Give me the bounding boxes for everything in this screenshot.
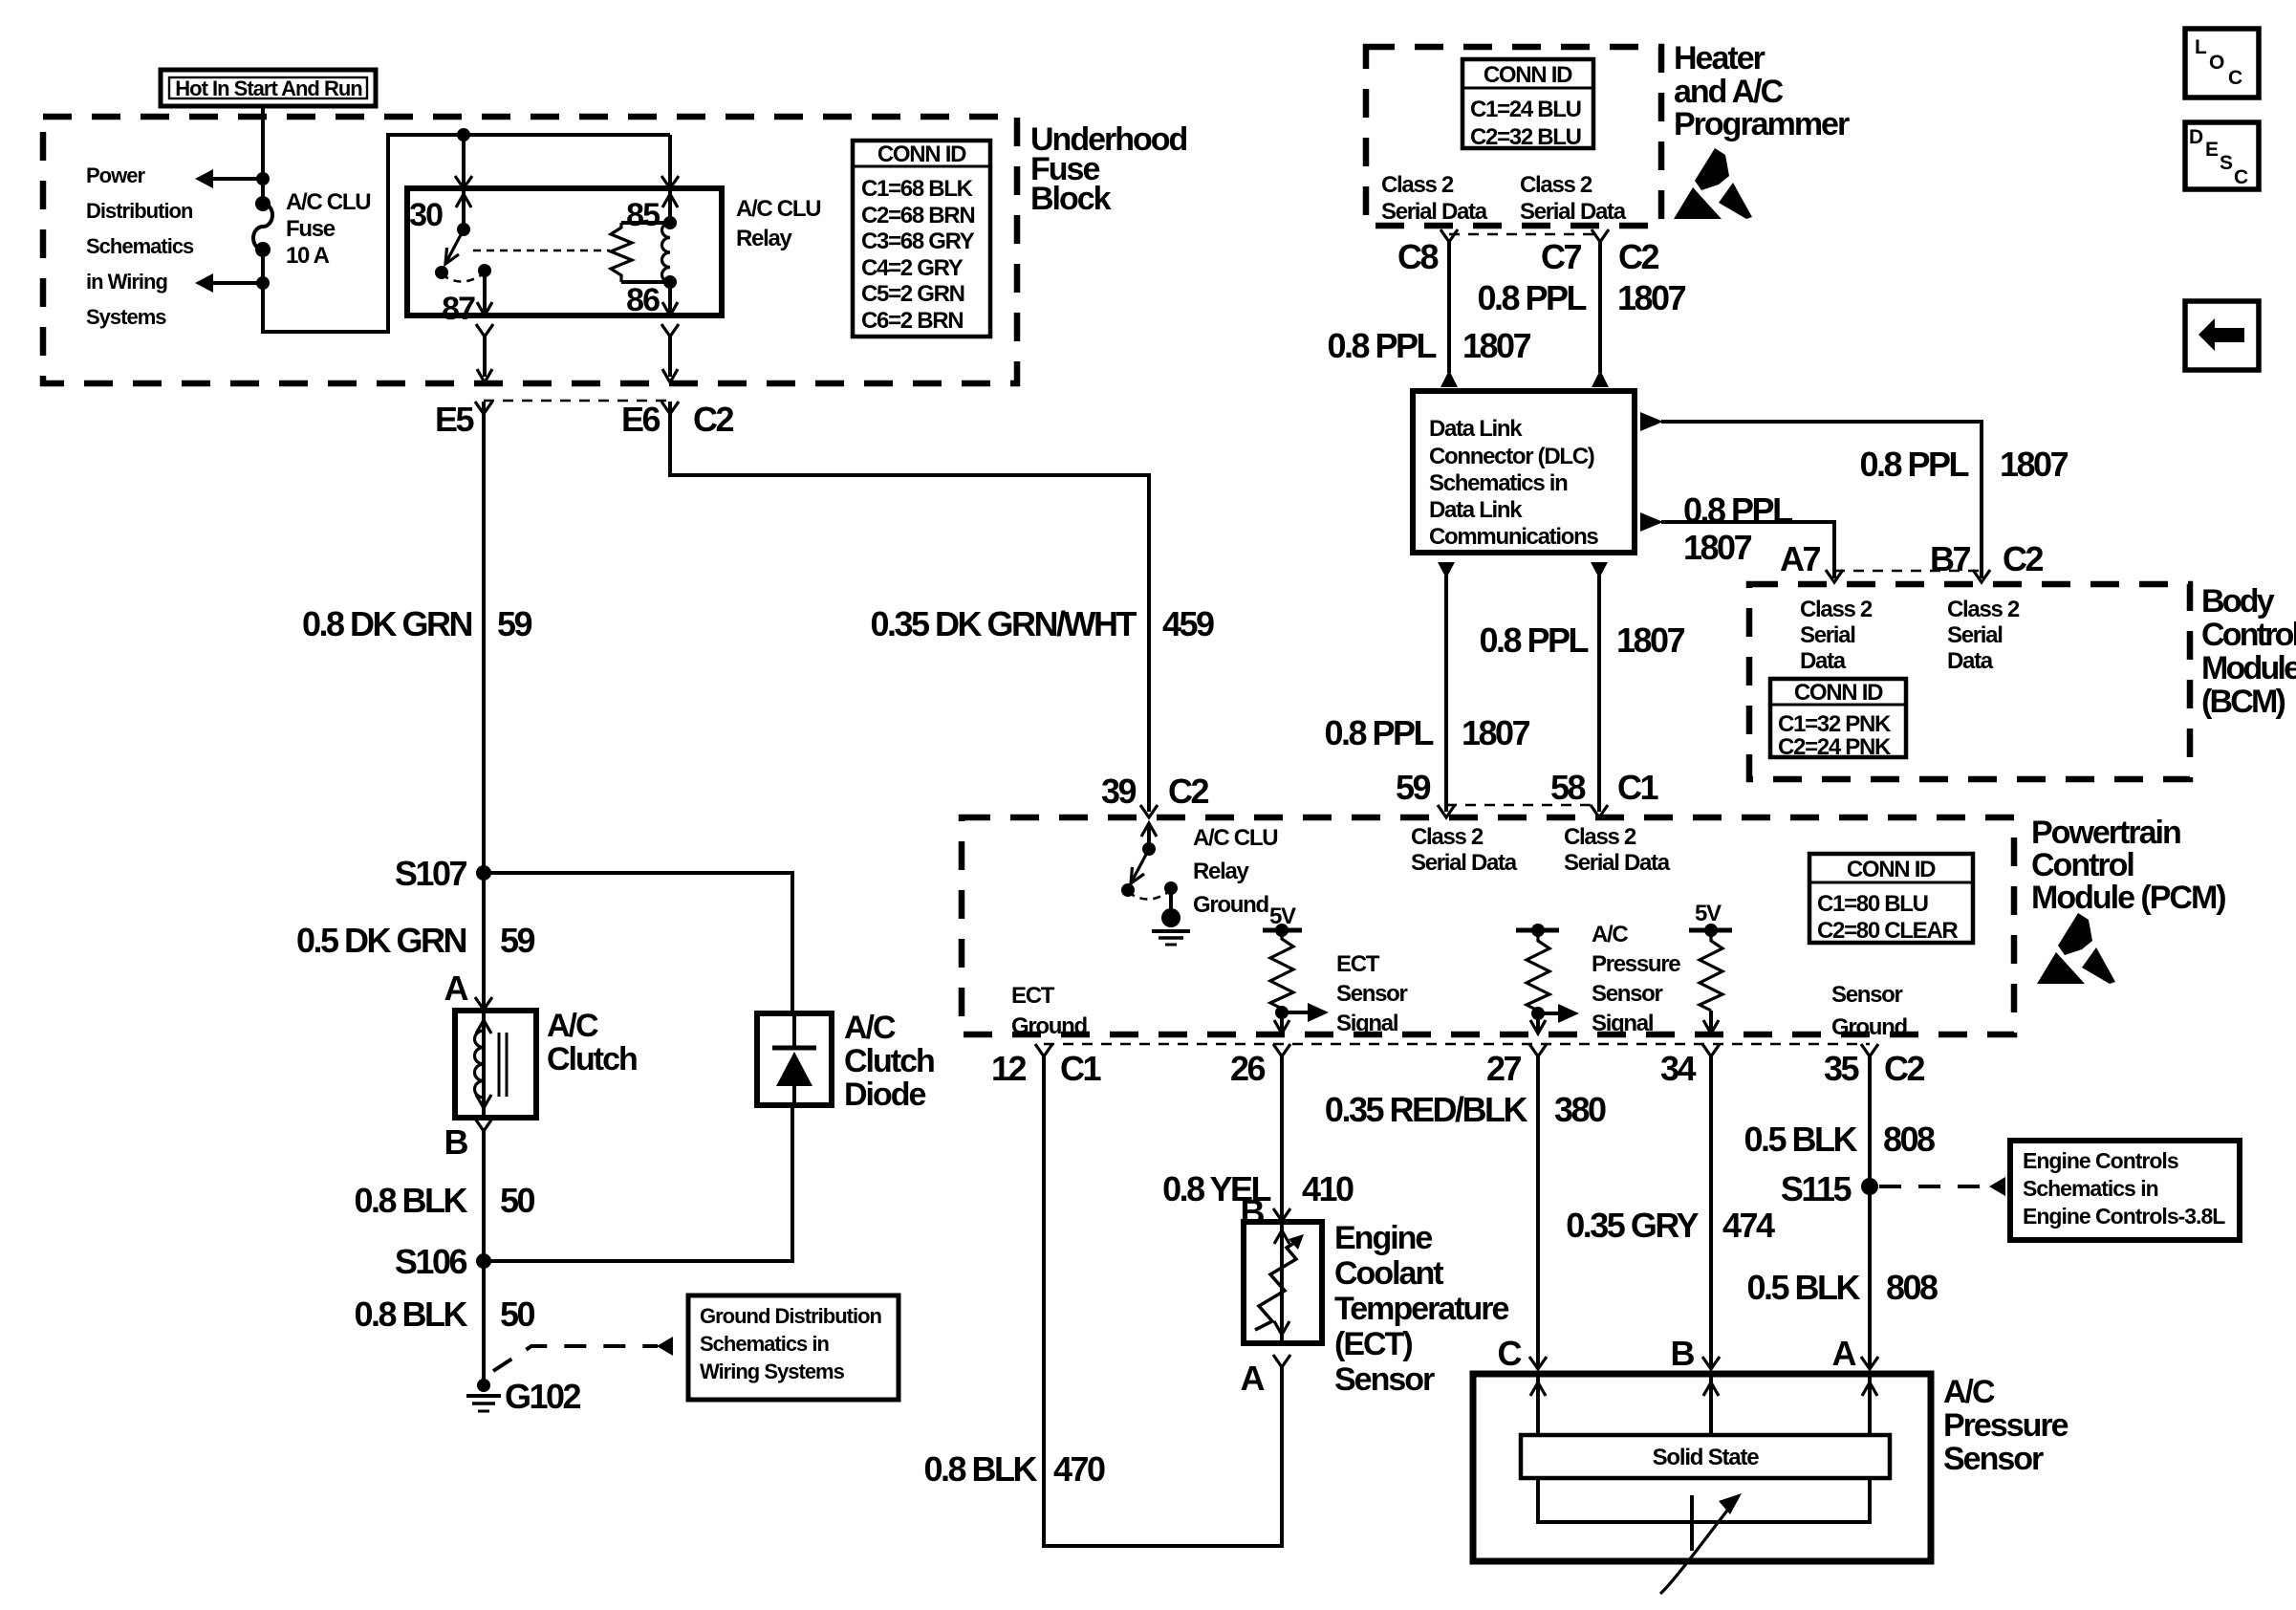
connector pin 26 chevron <box>1273 1044 1290 1056</box>
svg-text:Programmer: Programmer <box>1674 106 1850 142</box>
svg-text:C1=24 BLU: C1=24 BLU <box>1470 97 1581 122</box>
svg-text:ECT: ECT <box>1011 983 1055 1009</box>
svg-text:459: 459 <box>1162 604 1214 643</box>
svg-text:34: 34 <box>1660 1049 1697 1088</box>
svg-text:1807: 1807 <box>2000 445 2069 484</box>
connector bracket 59-58 (thin dashed) <box>1446 804 1599 807</box>
node: A/C pressure signal junction <box>1531 1007 1545 1020</box>
CONN ID table (Heater and A/C Programmer) <box>1462 59 1593 150</box>
Data Link Connector (DLC) reference box <box>1413 391 1635 553</box>
svg-text:C2=24 PNK: C2=24 PNK <box>1778 734 1892 760</box>
svg-text:E: E <box>2205 139 2219 161</box>
ground (A/C CLU relay ground) <box>1152 908 1190 945</box>
svg-text:1807: 1807 <box>1462 713 1530 752</box>
svg-text:Schematics in: Schematics in <box>1429 470 1568 496</box>
svg-text:Data Link: Data Link <box>1429 497 1523 523</box>
wire: pin 87 to E5 through fuse block boundary <box>476 324 493 382</box>
svg-text:Data Link: Data Link <box>1429 416 1523 442</box>
Body Control Module dashed outline <box>1749 584 2190 779</box>
svg-text:Signal: Signal <box>1592 1011 1653 1036</box>
variable capacitance symbol <box>1660 1493 1742 1594</box>
label: ECT Sensor Signal <box>1336 951 1408 1036</box>
wire: battery feed from Hot box to fuse <box>261 106 265 204</box>
svg-text:Module: Module <box>2201 650 2296 686</box>
label: Class 2 Serial Data (programmer left) <box>1381 172 1488 225</box>
svg-text:Ground Distribution: Ground Distribution <box>700 1304 882 1328</box>
CONN ID table (PCM) <box>1809 854 1973 944</box>
svg-text:C2: C2 <box>1884 1049 1924 1088</box>
label: Class 2 Serial Data (BCM left) <box>1800 597 1873 674</box>
svg-text:C2=80 CLEAR: C2=80 CLEAR <box>1817 918 1958 944</box>
svg-text:0.8 PPL: 0.8 PPL <box>1324 713 1433 752</box>
svg-text:A7: A7 <box>1780 539 1820 578</box>
svg-text:(BCM): (BCM) <box>2201 684 2285 720</box>
pin 85 entry: wire, chevron, arrow <box>661 135 679 223</box>
svg-text:58: 58 <box>1550 768 1586 807</box>
wire: S106 to G102 (0.8 BLK 50) <box>482 1261 486 1384</box>
switch arm (PCM driver) <box>1121 849 1171 900</box>
svg-text:C: C <box>2234 166 2248 188</box>
svg-text:Ground: Ground <box>1831 1014 1907 1040</box>
pin 86 exit wire and arrow <box>662 282 678 315</box>
svg-text:Wiring Systems: Wiring Systems <box>700 1360 845 1383</box>
svg-text:L: L <box>2195 36 2207 58</box>
svg-text:C1=68 BLK: C1=68 BLK <box>861 176 974 202</box>
svg-text:86: 86 <box>626 282 660 318</box>
arrow: ground reference (filled left arrow) <box>657 1337 673 1356</box>
Solid State box <box>1521 1435 1890 1478</box>
pressure sensor internal wire B with arrow <box>1703 1377 1719 1435</box>
module name: Engine Coolant Temperature (ECT) Sensor <box>1334 1220 1509 1398</box>
arrow into DLC (right) <box>1592 370 1609 387</box>
LOC navigation box <box>2185 29 2259 98</box>
A/C CLU relay ground switch inside PCM: entry arrow <box>1141 823 1157 856</box>
svg-text:D: D <box>2189 126 2203 148</box>
svg-text:(ECT): (ECT) <box>1334 1326 1412 1362</box>
wire: clutch B to S106 (0.8 BLK 50) <box>482 1131 486 1261</box>
svg-text:Serial Data: Serial Data <box>1381 199 1488 225</box>
svg-text:808: 808 <box>1886 1268 1938 1307</box>
svg-text:Serial Data: Serial Data <box>1564 850 1671 876</box>
svg-text:A/C: A/C <box>547 1008 598 1044</box>
connector bracket C1/C2 pins (thin dashed) <box>1044 1043 1870 1046</box>
connector pin 35 chevron <box>1861 1044 1878 1056</box>
dashed reference to Ground Distribution <box>493 1346 658 1371</box>
svg-text:A/C CLU: A/C CLU <box>736 196 820 222</box>
wire: E6 to PCM pin 39 (0.35 DK GRN/WHT 459) <box>670 402 1149 812</box>
svg-text:Distribution: Distribution <box>86 199 193 223</box>
connector chevron pressure sensor pin C <box>1529 1357 1547 1369</box>
connector pin 34 chevron <box>1702 1044 1720 1056</box>
Heater and A/C Programmer dashed outline <box>1366 47 1661 226</box>
pressure sensing element loop <box>1538 1478 1870 1522</box>
5V supply bar (ECT) <box>1263 903 1302 937</box>
label: Sensor Ground <box>1831 982 1907 1040</box>
svg-text:0.8 PPL: 0.8 PPL <box>1477 278 1586 317</box>
svg-text:Sensor: Sensor <box>1336 981 1408 1007</box>
svg-text:Engine Controls-3.8L: Engine Controls-3.8L <box>2023 1204 2225 1229</box>
wire: branch to power distribution (upper) <box>212 177 263 181</box>
svg-text:Signal: Signal <box>1336 1011 1397 1036</box>
svg-text:A/C: A/C <box>844 1010 896 1046</box>
svg-text:26: 26 <box>1230 1049 1266 1088</box>
svg-text:S107: S107 <box>395 854 467 893</box>
svg-text:C6=2 BRN: C6=2 BRN <box>861 308 963 334</box>
svg-text:Relay: Relay <box>1193 859 1249 884</box>
svg-text:35: 35 <box>1824 1049 1860 1088</box>
svg-text:410: 410 <box>1302 1169 1354 1208</box>
arrow: A/C pressure sensor signal (filled right arrow) <box>1538 1004 1579 1023</box>
arrow: ECT sensor signal (filled right arrow) <box>1282 1003 1329 1022</box>
wire: DLC to PCM pin 59 (0.8 PPL 1807) <box>1444 576 1448 812</box>
arrow: reference (filled left arrow) <box>1989 1177 2005 1196</box>
arrow out of DLC (lower right) <box>1640 512 1663 532</box>
connector 59 chevron <box>1438 805 1455 817</box>
wire: branch to power distribution (lower) <box>212 281 263 285</box>
svg-text:Class 2: Class 2 <box>1564 824 1636 850</box>
svg-text:Relay: Relay <box>736 226 792 251</box>
svg-text:Powertrain: Powertrain <box>2031 815 2180 851</box>
label: A/C CLU Relay <box>736 196 820 251</box>
connector bracket C8-C7 (thin dashed) <box>1449 233 1600 236</box>
connector chevron clutch pin A <box>475 997 492 1010</box>
svg-text:Serial: Serial <box>1800 622 1855 648</box>
svg-text:A: A <box>1832 1334 1857 1373</box>
svg-text:C2: C2 <box>693 400 733 439</box>
svg-text:A: A <box>1241 1359 1266 1398</box>
node S107 splice <box>476 865 491 881</box>
resistor: ECT pull-up <box>1270 930 1293 1009</box>
svg-text:C1: C1 <box>1060 1049 1101 1088</box>
arrow: to Power Distribution (upper, filled left arrow) <box>195 169 213 188</box>
svg-text:Hot In Start And Run: Hot In Start And Run <box>175 76 362 100</box>
resistor: A/C pressure signal pull-up <box>1527 930 1549 1011</box>
arrow out of DLC (bottom left, to PCM 59) <box>1438 562 1455 578</box>
Underhood Fuse Block dashed outline <box>43 117 1017 383</box>
svg-text:S115: S115 <box>1781 1169 1852 1208</box>
svg-text:G102: G102 <box>505 1377 581 1416</box>
A/C Clutch Diode box <box>757 1013 832 1105</box>
svg-text:Engine Controls: Engine Controls <box>2023 1148 2178 1173</box>
connector chevron ECT pin B <box>1273 1208 1290 1221</box>
wire: DLC to BCM B7 (0.8 PPL 1807) <box>1661 422 1982 578</box>
connector C7 chevron <box>1592 229 1609 242</box>
svg-text:Ground: Ground <box>1193 892 1268 918</box>
svg-text:Serial Data: Serial Data <box>1411 850 1518 876</box>
wire: pin 35 to pressure sensor A (0.5 BLK 808) <box>1868 1056 1872 1369</box>
label: Power Distribution Schematics in Wiring Systems <box>86 163 194 329</box>
svg-text:B: B <box>1671 1334 1695 1373</box>
svg-text:59: 59 <box>1396 768 1431 807</box>
label: Class 2 Serial Data (PCM left) <box>1411 824 1518 876</box>
wire: 5V reference to pin 34 with arrow <box>1703 1011 1719 1033</box>
svg-text:C4=2 GRY: C4=2 GRY <box>861 255 964 281</box>
ground G102 <box>466 1379 501 1411</box>
connector chevron clutch pin B <box>475 1119 492 1131</box>
svg-text:CONN ID: CONN ID <box>1794 680 1883 706</box>
svg-text:E6: E6 <box>621 400 661 439</box>
svg-text:Coolant: Coolant <box>1334 1255 1443 1292</box>
CONN ID table (BCM) <box>1770 679 1906 760</box>
svg-text:in Wiring: in Wiring <box>86 270 167 294</box>
dashed reference to Engine Controls <box>1879 1185 1990 1188</box>
svg-text:C8: C8 <box>1397 237 1438 276</box>
connector E6 chevron <box>661 402 679 414</box>
svg-text:C5=2 GRN: C5=2 GRN <box>861 281 964 307</box>
ECT sensor element: wire and arrows <box>1274 1222 1289 1343</box>
svg-text:C3=68 GRY: C3=68 GRY <box>861 228 975 254</box>
svg-text:0.8 BLK: 0.8 BLK <box>354 1295 467 1334</box>
node: ECT signal junction <box>1275 1006 1289 1019</box>
arrow into DLC (left) <box>1440 370 1458 387</box>
svg-text:Block: Block <box>1030 181 1112 217</box>
svg-text:C2: C2 <box>2003 539 2043 578</box>
5V supply bar (A/C pressure reference) <box>1689 901 1732 937</box>
svg-text:S: S <box>2220 152 2233 174</box>
svg-text:CONN ID: CONN ID <box>877 141 966 167</box>
svg-text:50: 50 <box>500 1295 535 1334</box>
wire: junction to pin 27 with arrow <box>1530 1013 1546 1033</box>
svg-text:and A/C: and A/C <box>1674 74 1784 110</box>
svg-text:Sensor: Sensor <box>1831 982 1903 1008</box>
svg-text:Control: Control <box>2201 617 2296 653</box>
wire: pin 27 to pressure sensor C (0.35 RED/BLK 380) <box>1536 1056 1540 1369</box>
svg-text:0.35 DK GRN/WHT: 0.35 DK GRN/WHT <box>870 604 1137 643</box>
svg-text:59: 59 <box>500 921 535 960</box>
wire: DLC to BCM A7 (0.8 PPL 1807) <box>1661 522 1834 578</box>
svg-text:0.5 BLK: 0.5 BLK <box>1744 1120 1857 1159</box>
svg-text:Control: Control <box>2031 847 2134 883</box>
diode D1 symbol <box>772 1013 816 1105</box>
svg-text:0.8 BLK: 0.8 BLK <box>923 1449 1037 1489</box>
CONN ID table (Underhood Fuse Block) <box>853 141 990 337</box>
arrow out of DLC (bottom right, to PCM 58) <box>1591 562 1608 578</box>
svg-text:C2=32 BLU: C2=32 BLU <box>1470 124 1581 150</box>
svg-text:474: 474 <box>1722 1206 1775 1245</box>
wire: C7 to DLC (0.8 PPL 1807) <box>1598 242 1602 373</box>
pressure sensor internal wire A with arrow <box>1862 1377 1877 1435</box>
svg-text:Diode: Diode <box>844 1077 926 1113</box>
svg-text:Solid State: Solid State <box>1653 1445 1760 1470</box>
wire: C8 to DLC (0.8 PPL 1807) <box>1447 242 1451 373</box>
svg-text:0.5 BLK: 0.5 BLK <box>1746 1268 1860 1307</box>
svg-text:C1: C1 <box>1617 768 1658 807</box>
svg-text:380: 380 <box>1554 1090 1606 1129</box>
connector pin 12 chevron <box>1035 1044 1052 1056</box>
svg-text:Schematics in: Schematics in <box>2023 1176 2158 1201</box>
svg-text:87: 87 <box>442 291 475 327</box>
label: A/C CLU Relay Ground <box>1193 825 1277 918</box>
node S106 splice <box>476 1253 491 1269</box>
svg-text:Data: Data <box>1947 648 1994 674</box>
wire: pin 26 to ECT sensor (0.8 YEL 410) <box>1280 1056 1284 1221</box>
svg-text:0.8 PPL: 0.8 PPL <box>1859 445 1968 484</box>
svg-text:Class 2: Class 2 <box>1411 824 1484 850</box>
svg-text:C: C <box>1498 1334 1523 1373</box>
svg-text:C7: C7 <box>1541 237 1581 276</box>
pin 87: stationary contact and exit wire <box>477 264 492 315</box>
resistor: 5V reference <box>1700 930 1722 1011</box>
svg-text:Serial Data: Serial Data <box>1520 199 1627 225</box>
connector E5 chevron <box>475 402 492 414</box>
DESC navigation box <box>2185 122 2259 189</box>
svg-text:C2=68 BRN: C2=68 BRN <box>861 203 974 228</box>
svg-text:0.8 PPL: 0.8 PPL <box>1683 490 1792 530</box>
connector pin 27 chevron <box>1529 1044 1547 1056</box>
node S115 splice <box>1861 1178 1878 1195</box>
svg-text:Schematics in: Schematics in <box>700 1332 830 1356</box>
ESD symbol (PCM) <box>2037 913 2115 984</box>
svg-text:C1=80 BLU: C1=80 BLU <box>1817 891 1928 917</box>
A/C Pressure Sensor box <box>1473 1374 1931 1561</box>
module name: A/C Clutch Diode <box>844 1010 934 1113</box>
svg-text:CONN ID: CONN ID <box>1484 62 1572 88</box>
svg-text:Pressure: Pressure <box>1592 951 1680 977</box>
connector chevron pressure sensor pin A <box>1861 1357 1878 1369</box>
relay coil L1 <box>662 216 678 289</box>
svg-text:Serial: Serial <box>1947 622 2003 648</box>
svg-text:Clutch: Clutch <box>844 1043 934 1079</box>
svg-text:Sensor: Sensor <box>1592 981 1663 1007</box>
wire: S107 to clutch diode <box>484 873 792 1013</box>
svg-text:59: 59 <box>497 604 532 643</box>
module name: A/C Clutch <box>547 1008 637 1077</box>
wire: diode to S106 <box>484 1105 792 1261</box>
node: junction dot on feed line above pin 30 <box>457 128 470 141</box>
svg-text:Schematics: Schematics <box>86 234 194 258</box>
svg-text:Clutch: Clutch <box>547 1041 637 1077</box>
label: Class 2 Serial Data (BCM right) <box>1947 597 2020 674</box>
svg-text:B: B <box>444 1122 468 1162</box>
switch: relay movable contact <box>435 223 485 282</box>
svg-text:0.8 BLK: 0.8 BLK <box>354 1181 467 1220</box>
svg-text:Temperature: Temperature <box>1334 1291 1509 1327</box>
svg-text:C: C <box>2228 67 2242 89</box>
pressure sensor internal wire C with arrow <box>1530 1377 1546 1435</box>
ESD symbol (Heater and A/C Programmer) <box>1674 148 1752 219</box>
svg-text:Ground: Ground <box>1011 1013 1087 1039</box>
svg-text:1807: 1807 <box>1617 278 1686 317</box>
svg-text:Module (PCM): Module (PCM) <box>2031 880 2225 916</box>
svg-text:ECT: ECT <box>1336 951 1380 977</box>
connector chevron 39 <box>1140 805 1158 817</box>
svg-text:1807: 1807 <box>1616 620 1685 660</box>
svg-text:85: 85 <box>626 197 660 233</box>
Engine Controls reference box <box>2010 1141 2240 1240</box>
svg-text:CONN ID: CONN ID <box>1847 857 1936 882</box>
connector C8 chevron <box>1440 229 1458 242</box>
module name: A/C Pressure Sensor <box>1943 1374 2069 1477</box>
svg-text:27: 27 <box>1486 1049 1522 1088</box>
label: A/C CLU Fuse 10 A <box>286 189 370 269</box>
wire: ECT junction to pin 26 with arrow <box>1274 1012 1289 1033</box>
relay K1: A/C CLU Relay box <box>407 188 722 315</box>
svg-text:5V: 5V <box>1695 901 1722 926</box>
label: ECT Ground <box>1011 983 1087 1039</box>
connector B7 chevron <box>1973 570 1990 582</box>
A/C Clutch box <box>455 1011 536 1118</box>
dashed mechanical linkage <box>473 250 610 252</box>
module name: Powertrain Control Module (PCM) <box>2031 815 2225 916</box>
connector A7 chevron <box>1826 570 1843 582</box>
svg-text:0.8 PPL: 0.8 PPL <box>1479 620 1588 660</box>
svg-text:A: A <box>444 968 469 1008</box>
wire: S107 to A/C clutch (0.5 DK GRN 59) <box>482 873 486 1010</box>
pin 30 entry: wire, chevron, arrow <box>455 135 472 229</box>
svg-text:1807: 1807 <box>1683 528 1752 567</box>
label: A/C Pressure Sensor Signal <box>1592 922 1680 1036</box>
svg-text:Class 2: Class 2 <box>1947 597 2020 622</box>
svg-text:C2: C2 <box>1168 772 1208 811</box>
svg-text:0.8 PPL: 0.8 PPL <box>1327 326 1436 365</box>
fuse F1: A/C CLU Fuse 10 A <box>253 196 272 257</box>
label: Class 2 Serial Data (PCM right) <box>1564 824 1671 876</box>
Hot In Start And Run box <box>161 70 376 106</box>
connector bracket E5-E6 (thin dashed) <box>484 400 670 402</box>
svg-text:808: 808 <box>1883 1120 1935 1159</box>
wire: pin 86 to E6 through fuse block boundary <box>661 324 679 382</box>
svg-text:Communications: Communications <box>1429 524 1598 550</box>
svg-text:A/C CLU: A/C CLU <box>1193 825 1277 851</box>
svg-text:A/C: A/C <box>1943 1374 1995 1410</box>
back-arrow navigation box <box>2185 301 2259 370</box>
svg-text:0.35 RED/BLK: 0.35 RED/BLK <box>1325 1090 1528 1129</box>
5V supply bar (A/C pressure pull-up) <box>1516 924 1559 937</box>
wire: DLC to PCM pin 58 (0.8 PPL 1807) <box>1597 576 1601 812</box>
svg-text:0.5 DK GRN: 0.5 DK GRN <box>296 921 466 960</box>
clutch coil and plates <box>475 1011 508 1118</box>
svg-text:Connector (DLC): Connector (DLC) <box>1429 444 1594 469</box>
svg-text:Pressure: Pressure <box>1943 1407 2069 1444</box>
svg-text:30: 30 <box>409 197 443 233</box>
svg-text:Class 2: Class 2 <box>1800 597 1873 622</box>
svg-text:Class 2: Class 2 <box>1381 172 1454 198</box>
svg-text:10 A: 10 A <box>286 243 330 269</box>
svg-text:B7: B7 <box>1930 539 1970 578</box>
svg-text:Heater: Heater <box>1674 40 1765 76</box>
wire: E5 to S107 (0.8 DK GRN 59) <box>482 402 486 873</box>
arrow out of DLC (upper right) <box>1640 412 1663 431</box>
svg-text:Engine: Engine <box>1334 1220 1432 1256</box>
Powertrain Control Module dashed outline <box>962 817 2014 1034</box>
Ground Distribution reference box <box>688 1295 899 1400</box>
ECT variable resistor zigzag <box>1255 1234 1304 1330</box>
svg-text:12: 12 <box>991 1049 1027 1088</box>
switch contact to ground <box>1164 881 1178 910</box>
wire: pin 12 ECT ground return <box>1044 1056 1282 1546</box>
svg-text:Data: Data <box>1800 648 1847 674</box>
svg-text:Systems: Systems <box>86 305 166 329</box>
svg-text:Fuse: Fuse <box>286 216 336 242</box>
svg-text:470: 470 <box>1053 1449 1105 1489</box>
svg-text:39: 39 <box>1101 772 1137 811</box>
module name: Body Control Module (BCM) <box>2201 583 2296 720</box>
label: Class 2 Serial Data (programmer right) <box>1520 172 1627 225</box>
svg-text:A/C: A/C <box>1592 922 1628 947</box>
svg-text:Class 2: Class 2 <box>1520 172 1592 198</box>
ECT sensor box <box>1244 1222 1322 1343</box>
wire: pin 34 to pressure sensor B (0.35 GRY 474) <box>1709 1056 1713 1369</box>
svg-text:S106: S106 <box>395 1242 467 1281</box>
relay coil branch: resistor <box>611 223 670 282</box>
svg-text:Sensor: Sensor <box>1334 1361 1435 1398</box>
module name: Underhood Fuse Block <box>1030 121 1187 217</box>
arrow: to Power Distribution (lower, filled left arrow) <box>195 273 213 293</box>
svg-text:0.35 GRY: 0.35 GRY <box>1566 1206 1699 1245</box>
connector chevron ECT pin A <box>1273 1355 1290 1367</box>
svg-text:C2: C2 <box>1618 237 1658 276</box>
connector 58 chevron <box>1591 805 1608 817</box>
